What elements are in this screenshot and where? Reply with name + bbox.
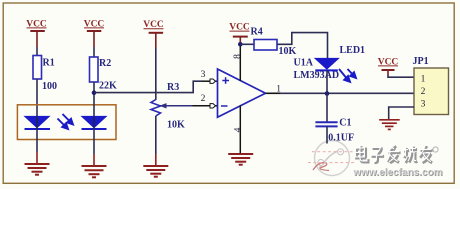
wire VCC to R1 [36,47,38,56]
svg-text:R3: R3 [167,82,179,93]
capacitor C1 [315,117,354,143]
plus sign [222,77,229,84]
svg-text:3: 3 [421,99,426,109]
wire D1 to ground [36,129,38,152]
wire R4 to LED1 [277,33,328,59]
LED1 light arrows [339,69,356,82]
pin 4 line [239,106,241,155]
wire LED1 to output node [326,70,328,93]
wire D2 to ground [93,129,95,154]
node junction VCC/R4/pin8 [238,42,243,47]
LED1 [315,45,365,70]
svg-text:1: 1 [421,75,426,85]
svg-text:8: 8 [233,54,243,59]
svg-text:R4: R4 [251,26,263,37]
power port VCC (net V3) [143,20,164,48]
diode D1 (IR emitter) [25,117,51,130]
watermark red scribble [313,163,329,171]
wire R2 to diode D2 [93,82,95,117]
ground G2 [82,166,107,177]
power port VCC (net V5) [378,57,399,75]
power port VCC (net V2) [84,19,105,47]
wire R3 to ground [155,116,157,154]
diode D2 (IR receiver) [82,117,107,130]
wire VCC to JP1 pin 1 [388,75,414,77]
svg-text:R1: R1 [43,58,55,69]
ground G5 [379,120,400,130]
svg-text:22K: 22K [99,81,117,92]
resistor R2 [90,57,118,92]
resistor R4 [240,26,296,57]
svg-text:2: 2 [201,94,206,104]
wire sense node to comparator [94,81,202,92]
svg-text:www.elecfans.com: www.elecfans.com [353,168,443,179]
pin 3 glyph [210,79,216,83]
svg-text:100: 100 [42,81,57,92]
watermark logo circle [315,141,350,176]
output wire to JP1 pin 2 [280,92,414,94]
watermark (R) mark [433,147,438,152]
ground G1 [25,164,50,175]
node junction LED/C1/output [325,91,330,96]
pin 1 output lead [266,92,281,94]
svg-text:2: 2 [421,87,426,97]
C1 bottom stub [326,126,328,143]
border frame [3,3,454,183]
sensor box [17,105,116,140]
power port VCC (net V4) [229,23,250,45]
svg-text:0.1UF: 0.1UF [328,133,354,144]
resistor R1 [33,56,57,93]
node junction R2/D2/wire [92,90,97,95]
svg-text:4: 4 [234,127,244,132]
ground G3 [143,166,168,177]
R3 wiper arrow to pin 2 [159,103,210,108]
svg-text:R2: R2 [99,58,111,69]
wire output node to C1 [326,94,328,123]
power port VCC (net V1) [26,19,47,47]
svg-text:10K: 10K [279,46,297,57]
IR light arrows [58,114,74,129]
connector JP1 [413,56,449,115]
pin 2 glyph [210,104,216,108]
op-amp U1A triangle [218,69,266,117]
svg-text:U1A: U1A [294,57,314,68]
svg-text:JP1: JP1 [413,56,429,67]
wire VCC to R2 [93,47,95,57]
svg-text:LED1: LED1 [340,45,366,56]
wire R1 to diode D1 [36,79,38,117]
pin 8 line [239,44,241,81]
wire VCC to R3 top [155,48,157,100]
wire JP1 pin 3 to ground [389,107,414,120]
svg-text:C1: C1 [339,117,351,128]
pin 3 lead [202,80,211,82]
svg-text:10K: 10K [167,120,185,131]
potentiometer R3 [151,82,185,131]
ground G4 [228,154,253,165]
svg-text:3: 3 [201,70,206,80]
minus sign [221,105,228,107]
svg-text:LM393AD: LM393AD [294,70,340,81]
watermark pink dashes [308,152,356,163]
